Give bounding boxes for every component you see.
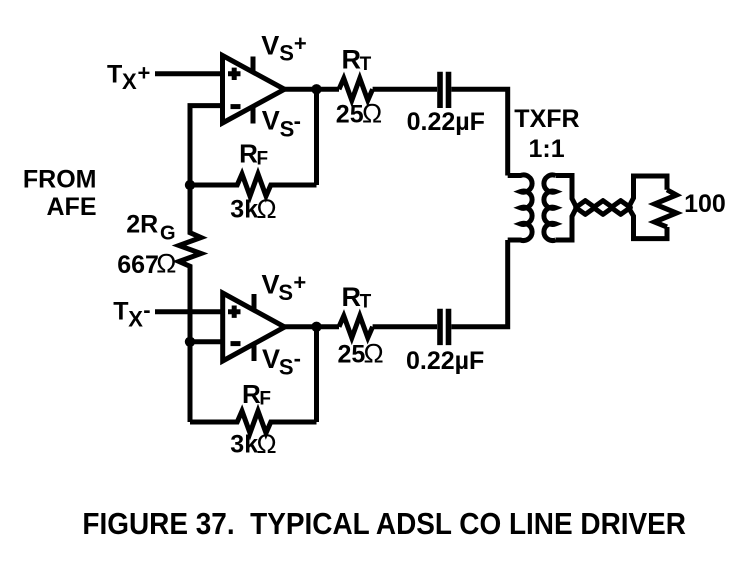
svg-text:V: V [262,106,280,136]
svg-text:F: F [257,148,269,169]
svg-text:100: 100 [684,190,726,218]
svg-text:X: X [128,307,143,332]
op-amp U1 [223,56,285,124]
wire U1 output [285,87,340,92]
junction node B [185,337,195,347]
U2 VS- pin [252,345,257,361]
junction node A [185,180,195,190]
svg-text:R: R [239,139,258,169]
svg-text:TXFR: TXFR [514,105,579,133]
svg-text:+: + [293,270,306,295]
wire secondary bottom [556,208,577,241]
svg-text:1:1: 1:1 [529,135,565,163]
wire RT2 to C2 [373,324,437,329]
wire U2 feedback vertical [314,327,319,422]
U1 plus sign [228,68,241,80]
svg-text:-: - [294,108,301,133]
svg-text:2R: 2R [126,211,158,239]
U2 VS+ pin [252,294,257,309]
svg-text:-: - [143,298,150,323]
resistor RF1 [190,174,317,196]
svg-text:FROM: FROM [23,165,97,193]
wire U2 output [285,324,339,329]
wire secondary top [556,176,577,208]
svg-text:+: + [138,61,151,86]
svg-text:V: V [262,269,280,299]
transformer T1 primary winding [508,175,532,241]
wire load top diagonal [629,176,668,208]
svg-text:R: R [242,379,261,409]
wire TX+ input [155,71,223,76]
resistor RF2 [190,411,317,433]
twisted pair loop 1 [576,201,595,215]
svg-text:T: T [360,54,372,75]
resistor RT2 [339,316,373,338]
svg-text:667: 667 [117,251,159,279]
svg-text:S: S [279,40,294,65]
svg-text:S: S [280,117,295,142]
capacitor C1 [440,72,449,108]
svg-text:0.22µF: 0.22µF [407,108,485,136]
U1 VS+ pin [251,57,256,72]
wire RT1 to C1 [373,87,437,92]
wire C2 to transformer [451,240,507,327]
wire load bottom [629,208,668,239]
svg-text:T: T [360,292,372,313]
U1 minus sign [231,104,241,109]
junction node U2 output [311,322,321,332]
svg-text:V: V [262,344,280,374]
svg-text:Ω: Ω [257,429,277,459]
wire node B to RF2 [188,342,193,422]
U2 plus sign [228,306,241,318]
svg-text:3k: 3k [230,430,258,458]
twisted pair loop 3 [611,201,630,215]
svg-text:V: V [261,31,279,61]
twisted pair loop 2 [593,201,612,215]
U1 VS- pin [251,108,256,124]
svg-text:X: X [122,69,137,94]
svg-text:G: G [160,223,176,245]
svg-text:Ω: Ω [156,248,176,278]
wire U1 inverting input [190,106,223,185]
svg-text:R: R [342,44,362,74]
wire TX- input [155,309,223,314]
op-amp U2 [223,293,285,361]
svg-text:Ω: Ω [257,194,277,224]
svg-text:25: 25 [336,101,364,129]
svg-text:F: F [259,389,271,410]
wire U2 inverting input [190,339,223,344]
svg-text:0.22µF: 0.22µF [406,347,484,375]
capacitor C2 [440,309,449,345]
svg-text:-: - [294,346,301,371]
svg-text:3k: 3k [230,195,258,223]
transformer T1 secondary winding [544,175,556,241]
resistor R load zigzag [655,190,677,227]
svg-text:+: + [294,31,307,56]
resistor RT1 [339,78,373,100]
U2 minus sign [231,341,241,346]
svg-text:S: S [278,280,293,305]
svg-text:T: T [107,60,122,88]
svg-text:Ω: Ω [362,99,382,129]
svg-text:25: 25 [338,341,366,369]
wire U1 feedback vertical [314,89,319,185]
svg-text:FIGURE 37. TYPICAL ADSL CO LI: FIGURE 37. TYPICAL ADSL CO LINE DRIVER [82,507,686,541]
svg-text:R: R [342,282,362,312]
svg-text:Ω: Ω [364,339,384,369]
junction node U1 output [311,84,321,94]
svg-text:AFE: AFE [47,193,97,221]
resistor 2RG [179,185,201,342]
svg-text:S: S [279,355,294,380]
svg-text:T: T [113,298,128,326]
wire C1 to transformer [451,89,507,175]
